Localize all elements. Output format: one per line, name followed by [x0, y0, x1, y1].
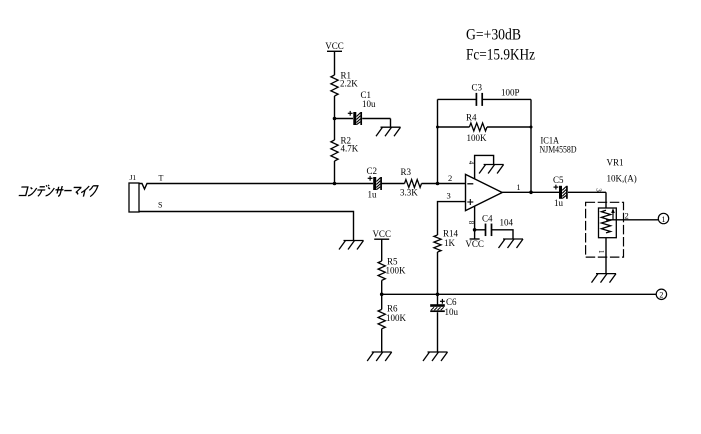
svg-text:1: 1	[662, 215, 666, 224]
svg-text:1K: 1K	[444, 238, 456, 248]
svg-text:R3: R3	[401, 167, 412, 177]
svg-text:J1: J1	[130, 173, 137, 182]
svg-text:C2: C2	[367, 166, 378, 176]
svg-text:C5: C5	[553, 175, 564, 185]
svg-text:10u: 10u	[445, 307, 459, 317]
svg-text:R4: R4	[466, 113, 477, 123]
svg-text:8: 8	[467, 221, 475, 225]
svg-text:2: 2	[625, 210, 629, 220]
svg-text:1u: 1u	[368, 190, 378, 200]
svg-text:Fc=15.9KHz: Fc=15.9KHz	[466, 47, 535, 64]
svg-text:C4: C4	[482, 214, 493, 224]
svg-text:2: 2	[448, 173, 452, 183]
svg-text:G=+30dB: G=+30dB	[466, 26, 521, 43]
svg-text:C3: C3	[472, 83, 483, 93]
svg-text:S: S	[158, 201, 162, 210]
svg-text:3.3K: 3.3K	[400, 188, 418, 198]
svg-text:3: 3	[595, 188, 603, 192]
svg-text:T: T	[159, 174, 164, 183]
svg-text:NJM4558D: NJM4558D	[540, 144, 577, 154]
svg-text:VCC: VCC	[465, 239, 484, 249]
svg-text:2.2K: 2.2K	[340, 79, 358, 89]
svg-text:100K: 100K	[386, 266, 407, 276]
svg-text:1: 1	[597, 250, 605, 254]
svg-text:VCC: VCC	[325, 41, 344, 51]
svg-text:4: 4	[467, 161, 475, 165]
svg-text:R6: R6	[387, 304, 398, 314]
svg-text:104: 104	[500, 218, 514, 228]
svg-text:VR1: VR1	[607, 158, 624, 168]
svg-text:C6: C6	[446, 297, 457, 307]
svg-text:100K: 100K	[467, 133, 488, 143]
svg-text:2: 2	[659, 291, 663, 300]
svg-text:VCC: VCC	[372, 229, 391, 239]
svg-text:4.7K: 4.7K	[341, 144, 359, 154]
svg-text:10u: 10u	[362, 99, 376, 109]
svg-text:10K,(A): 10K,(A)	[607, 174, 637, 184]
svg-text:3: 3	[447, 191, 451, 201]
svg-text:1: 1	[517, 183, 521, 192]
svg-text:1u: 1u	[554, 198, 564, 208]
svg-text:100P: 100P	[501, 88, 520, 98]
svg-text:100K: 100K	[386, 313, 407, 323]
